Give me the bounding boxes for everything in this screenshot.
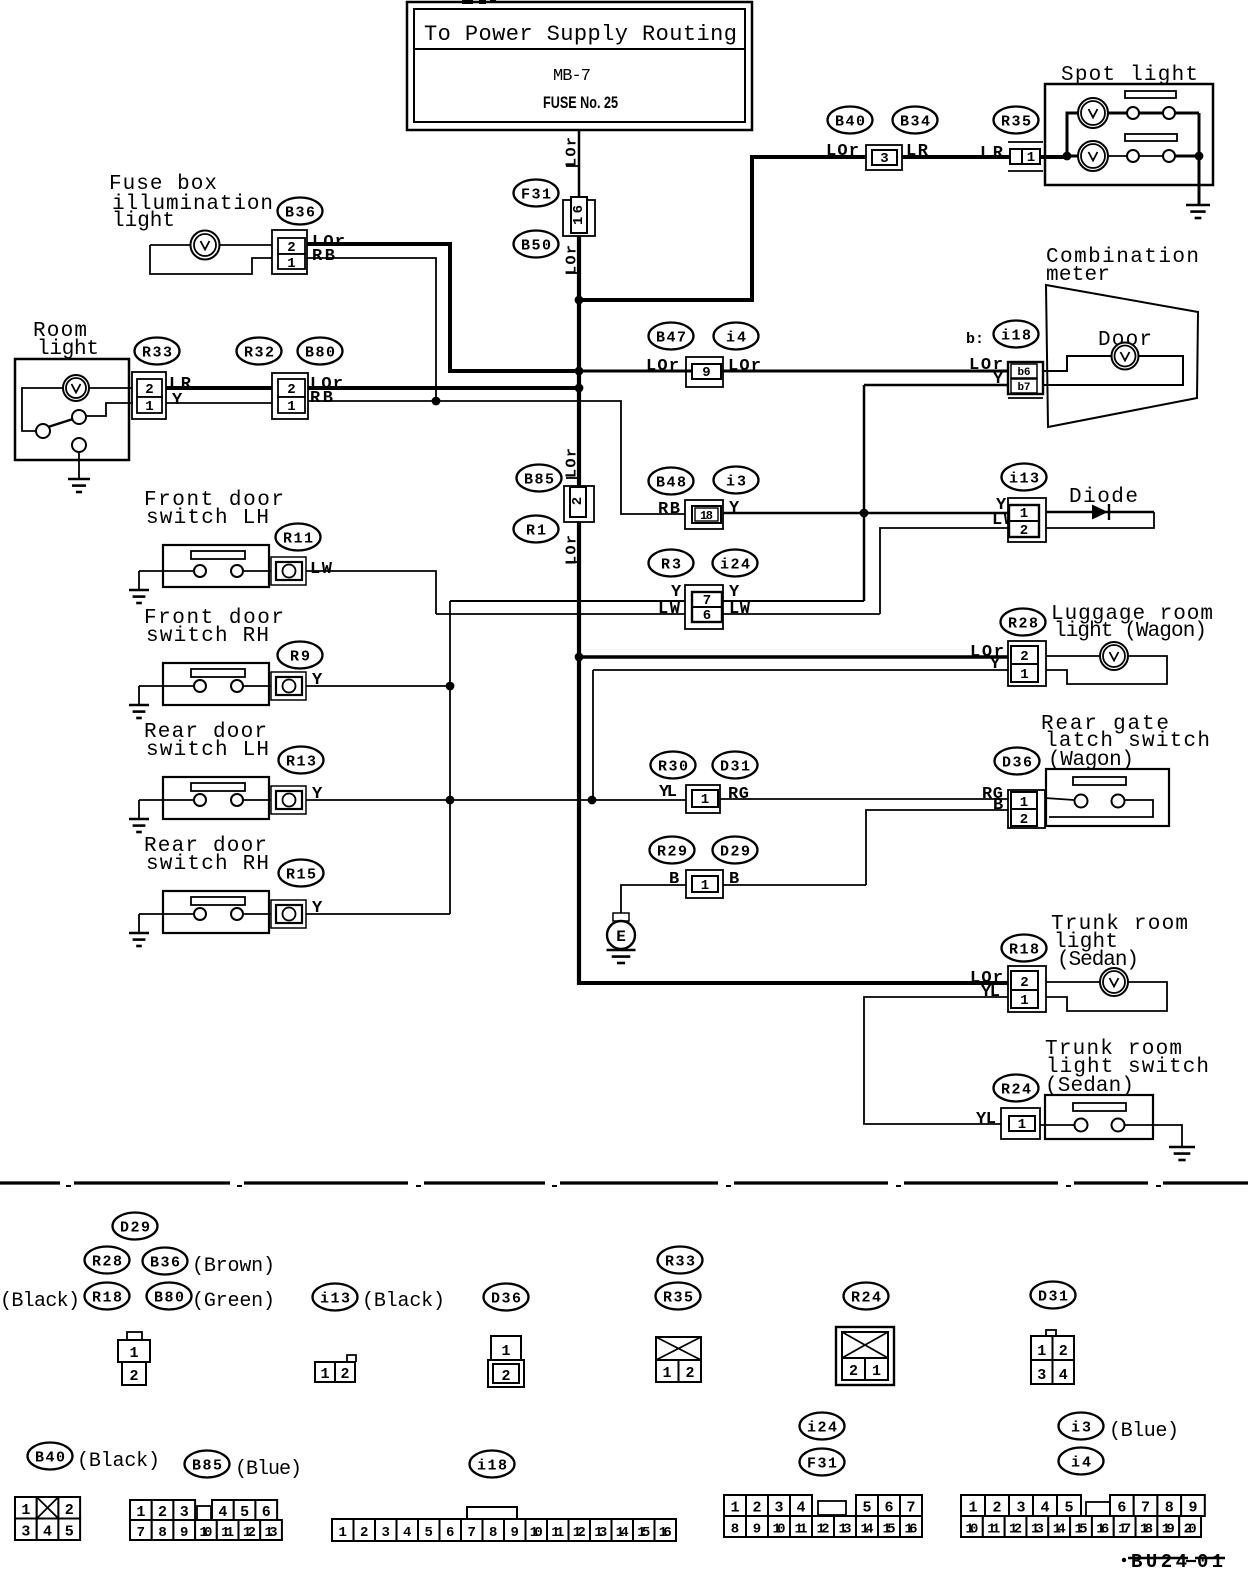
svg-text:13: 13 (265, 1525, 278, 1541)
svg-text:11: 11 (795, 1522, 808, 1538)
svg-text:i24: i24 (807, 1420, 837, 1437)
svg-text:1: 1 (1020, 667, 1028, 683)
svg-text:R1: R1 (526, 523, 546, 540)
svg-text:LR: LR (980, 144, 1004, 163)
svg-text:18: 18 (1140, 1522, 1153, 1538)
svg-text:LW: LW (310, 560, 333, 579)
svg-text:13: 13 (839, 1522, 852, 1538)
svg-text:YL: YL (981, 983, 1000, 1002)
svg-text:1: 1 (1020, 506, 1028, 522)
svg-text:meter: meter (1046, 264, 1110, 287)
svg-text:b7: b7 (1018, 382, 1031, 394)
svg-text:LOr: LOr (646, 357, 679, 376)
svg-text:B40: B40 (835, 114, 865, 131)
svg-text:B85: B85 (524, 472, 554, 489)
svg-text:2: 2 (340, 1366, 349, 1383)
svg-text:4: 4 (1040, 1500, 1049, 1517)
svg-text:2: 2 (501, 1368, 510, 1385)
svg-text:R29: R29 (657, 844, 687, 861)
svg-text:1: 1 (701, 792, 709, 808)
svg-text:5: 5 (1064, 1500, 1073, 1517)
svg-text:(Sedan): (Sedan) (1057, 949, 1139, 972)
svg-text:switch RH: switch RH (146, 853, 269, 876)
svg-text:B85: B85 (192, 1458, 222, 1475)
svg-text:14: 14 (1053, 1522, 1066, 1538)
svg-text:i3: i3 (726, 474, 746, 491)
svg-text:i4: i4 (1071, 1455, 1091, 1472)
svg-text:2: 2 (158, 1504, 167, 1521)
svg-text:B: B (669, 870, 679, 889)
svg-text:1: 1 (1020, 795, 1028, 811)
svg-text:1: 1 (968, 1500, 977, 1517)
svg-text:Y: Y (993, 370, 1004, 389)
svg-text:12: 12 (1009, 1522, 1022, 1538)
svg-text:1: 1 (136, 1504, 145, 1521)
svg-text:F31: F31 (807, 1456, 837, 1473)
svg-text:11: 11 (221, 1525, 234, 1541)
svg-text:i13: i13 (1009, 471, 1039, 488)
svg-text:2: 2 (685, 1365, 694, 1382)
svg-text:1: 1 (129, 1345, 138, 1362)
svg-text:i24: i24 (720, 557, 750, 574)
svg-text:3: 3 (880, 151, 888, 167)
svg-text:1: 1 (730, 1500, 739, 1517)
svg-text:7: 7 (1141, 1500, 1150, 1517)
svg-text:D31: D31 (720, 759, 750, 776)
svg-text:light (Wagon): light (Wagon) (1054, 620, 1207, 643)
svg-text:R32: R32 (244, 345, 274, 362)
svg-text:10: 10 (965, 1522, 978, 1538)
svg-text:b:: b: (966, 331, 984, 348)
svg-text:light: light (37, 338, 99, 361)
svg-text:3: 3 (1016, 1500, 1025, 1517)
svg-text:Diode: Diode (1069, 486, 1138, 509)
svg-text:switch LH: switch LH (146, 507, 269, 530)
svg-text:4: 4 (1059, 1367, 1068, 1384)
svg-text:14: 14 (861, 1522, 874, 1538)
svg-text:7: 7 (906, 1500, 915, 1517)
svg-text:R18: R18 (92, 1290, 122, 1307)
svg-text:15: 15 (637, 1525, 650, 1541)
svg-text:3: 3 (1037, 1367, 1046, 1384)
svg-text:Y: Y (990, 655, 1001, 674)
svg-text:2: 2 (1059, 1343, 1068, 1360)
svg-text:i18: i18 (1001, 328, 1031, 345)
svg-text:6: 6 (703, 608, 711, 624)
svg-text:(Green): (Green) (192, 1290, 275, 1313)
svg-text:LOr: LOr (826, 142, 859, 161)
svg-text:YL: YL (659, 783, 677, 802)
svg-text:B: B (729, 870, 739, 889)
svg-text:9: 9 (1188, 1500, 1197, 1517)
svg-text:B36: B36 (285, 205, 315, 222)
svg-text:Y: Y (172, 391, 183, 410)
svg-text:(Black): (Black) (0, 1290, 80, 1313)
svg-text:6: 6 (446, 1525, 454, 1541)
svg-text:1: 1 (1018, 1117, 1026, 1133)
svg-text:D29: D29 (120, 1220, 150, 1237)
svg-text:1: 1 (287, 399, 295, 415)
svg-text:R15: R15 (286, 867, 316, 884)
svg-text:5: 5 (425, 1525, 433, 1541)
svg-text:2: 2 (287, 382, 295, 398)
svg-text:D29: D29 (720, 844, 750, 861)
svg-text:6: 6 (262, 1504, 271, 1521)
svg-text:1: 1 (1037, 1343, 1046, 1360)
svg-text:1: 1 (287, 256, 295, 272)
svg-text:9: 9 (180, 1525, 188, 1541)
svg-text:15: 15 (883, 1522, 896, 1538)
svg-text:R24: R24 (1001, 1082, 1031, 1099)
svg-text:16: 16 (905, 1522, 918, 1538)
svg-text:B: B (993, 796, 1003, 815)
svg-text:2: 2 (65, 1502, 74, 1519)
svg-text:4: 4 (218, 1504, 227, 1521)
svg-text:16: 16 (1096, 1522, 1109, 1538)
svg-text:18: 18 (700, 509, 713, 523)
svg-text:9: 9 (753, 1522, 761, 1538)
svg-text:B80: B80 (154, 1290, 184, 1307)
svg-text:(Blue): (Blue) (1109, 1420, 1179, 1443)
svg-text:14: 14 (616, 1525, 629, 1541)
svg-text:20: 20 (1184, 1522, 1197, 1538)
svg-text:2: 2 (287, 240, 295, 256)
svg-text:15: 15 (1075, 1522, 1088, 1538)
svg-text:E: E (616, 928, 626, 946)
svg-text:2: 2 (849, 1363, 858, 1380)
svg-text:3: 3 (382, 1525, 390, 1541)
svg-text:3: 3 (774, 1500, 783, 1517)
svg-text:YL: YL (976, 1110, 996, 1129)
svg-text:2: 2 (360, 1525, 368, 1541)
svg-text:12: 12 (573, 1525, 586, 1541)
svg-text:B47: B47 (656, 330, 686, 347)
svg-text:R28: R28 (92, 1254, 122, 1271)
svg-text:1: 1 (1020, 993, 1028, 1009)
svg-text:2: 2 (1020, 975, 1028, 991)
svg-text:3: 3 (21, 1524, 30, 1541)
svg-text:RB: RB (658, 500, 680, 519)
svg-text:12: 12 (817, 1522, 830, 1538)
svg-text:(Black): (Black) (77, 1450, 160, 1473)
svg-text:R13: R13 (286, 754, 316, 771)
svg-text:Y: Y (312, 785, 323, 804)
svg-text:12: 12 (243, 1525, 256, 1541)
svg-text:16: 16 (659, 1525, 672, 1541)
svg-text:1: 1 (501, 1343, 510, 1360)
svg-text:switch RH: switch RH (146, 625, 269, 648)
svg-text:10: 10 (530, 1525, 543, 1541)
svg-text:(Brown): (Brown) (192, 1255, 275, 1278)
svg-text:Y: Y (312, 671, 323, 690)
svg-text:1: 1 (701, 878, 709, 894)
svg-text:LW: LW (729, 600, 751, 619)
svg-text:R18: R18 (1009, 942, 1039, 959)
svg-text:7: 7 (468, 1525, 476, 1541)
svg-text:LOr: LOr (564, 245, 581, 275)
svg-text:Y: Y (312, 899, 323, 918)
svg-text:4: 4 (43, 1524, 52, 1541)
svg-text:B80: B80 (305, 345, 335, 362)
svg-text:FUSE No. 25: FUSE No. 25 (543, 94, 618, 112)
svg-text:8: 8 (489, 1525, 497, 1541)
svg-text:LR: LR (906, 142, 929, 161)
svg-text:1: 1 (1027, 150, 1035, 166)
svg-text:D36: D36 (491, 1291, 521, 1308)
svg-text:B34: B34 (900, 114, 930, 131)
svg-text:R33: R33 (142, 345, 172, 362)
svg-text:b6: b6 (1018, 367, 1031, 379)
svg-text:10: 10 (773, 1522, 786, 1538)
svg-text:7: 7 (137, 1525, 145, 1541)
svg-text:Y: Y (729, 499, 740, 518)
svg-text:5: 5 (240, 1504, 249, 1521)
svg-text:i13: i13 (320, 1291, 350, 1308)
svg-text:i3: i3 (1071, 1420, 1091, 1437)
svg-text:B36: B36 (150, 1255, 180, 1272)
svg-text:B40: B40 (35, 1450, 65, 1467)
svg-text:i4: i4 (726, 330, 746, 347)
svg-text:R11: R11 (283, 531, 313, 548)
svg-text:17: 17 (1118, 1522, 1131, 1538)
svg-text:8: 8 (1165, 1500, 1174, 1517)
svg-text:2: 2 (752, 1500, 761, 1517)
svg-text:1: 1 (145, 399, 153, 415)
svg-text:D31: D31 (1038, 1289, 1068, 1306)
svg-text:4: 4 (796, 1500, 805, 1517)
svg-text:9: 9 (702, 365, 710, 381)
svg-text:R35: R35 (663, 1290, 693, 1307)
svg-text:To Power Supply Routing: To Power Supply Routing (424, 22, 737, 47)
svg-text:13: 13 (1031, 1522, 1044, 1538)
svg-text:R24: R24 (851, 1290, 881, 1307)
svg-text:6: 6 (1117, 1500, 1126, 1517)
svg-text:2: 2 (1020, 649, 1028, 665)
svg-text:2: 2 (992, 1500, 1001, 1517)
svg-text:(Black): (Black) (362, 1290, 445, 1313)
svg-text:1: 1 (320, 1366, 329, 1383)
svg-text:1: 1 (339, 1525, 347, 1541)
svg-text:switch LH: switch LH (146, 739, 269, 762)
svg-text:LOr: LOr (564, 137, 581, 167)
svg-text:3: 3 (180, 1504, 189, 1521)
svg-text:11: 11 (987, 1522, 1000, 1538)
svg-text:B48: B48 (656, 475, 686, 492)
svg-text:2: 2 (1020, 812, 1028, 828)
svg-text:4: 4 (403, 1525, 411, 1541)
svg-text:D36: D36 (1002, 755, 1032, 772)
svg-text:R33: R33 (665, 1254, 695, 1271)
svg-text:F31: F31 (521, 187, 551, 204)
svg-text:13: 13 (594, 1525, 607, 1541)
svg-text:R30: R30 (658, 759, 688, 776)
svg-text:1: 1 (872, 1363, 881, 1380)
svg-text:8: 8 (731, 1522, 739, 1538)
svg-text:2: 2 (570, 497, 586, 505)
svg-text:9: 9 (511, 1525, 519, 1541)
svg-text:R3: R3 (661, 557, 681, 574)
svg-text:1: 1 (662, 1365, 671, 1382)
svg-text:(Blue): (Blue) (235, 1458, 302, 1481)
svg-text:light: light (112, 210, 175, 233)
svg-text:10: 10 (199, 1525, 212, 1541)
svg-text:5: 5 (862, 1500, 871, 1517)
svg-text:19: 19 (1162, 1522, 1175, 1538)
svg-text:8: 8 (158, 1525, 166, 1541)
svg-text:2: 2 (145, 382, 153, 398)
svg-text:1: 1 (21, 1502, 30, 1519)
svg-text:LOr: LOr (564, 448, 581, 478)
svg-text:LOr: LOr (564, 535, 581, 565)
svg-text:RG: RG (728, 785, 749, 804)
svg-text:6: 6 (884, 1500, 893, 1517)
svg-text:i18: i18 (477, 1458, 507, 1475)
svg-text:R35: R35 (1001, 114, 1031, 131)
svg-text:R9: R9 (290, 649, 310, 666)
svg-text:2: 2 (1020, 523, 1028, 539)
svg-text:7: 7 (703, 593, 711, 609)
svg-text:11: 11 (551, 1525, 564, 1541)
svg-text:R28: R28 (1008, 616, 1038, 633)
svg-text:5: 5 (65, 1524, 74, 1541)
svg-text:LW: LW (658, 600, 681, 619)
svg-text:LOr: LOr (728, 357, 761, 376)
svg-text:MB-7: MB-7 (553, 67, 591, 86)
svg-text:B50: B50 (521, 238, 551, 255)
svg-text:2: 2 (129, 1368, 138, 1385)
